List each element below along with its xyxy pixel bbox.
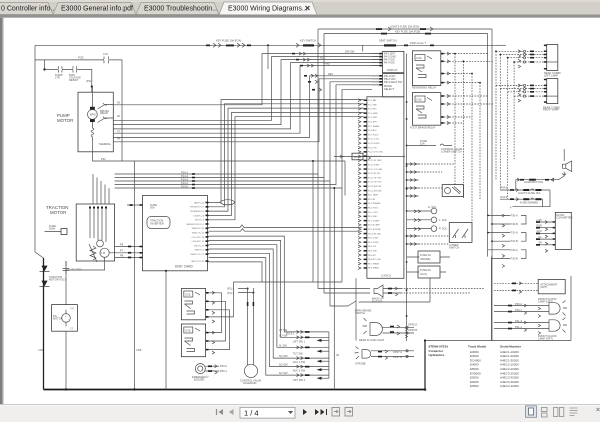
svg-text:10A: 10A — [420, 141, 425, 145]
wires to front flood lamp 1 — [494, 306, 549, 312]
wire stubs into display — [372, 54, 379, 66]
connector pins on traction leads — [128, 246, 131, 248]
left window edge — [0, 18, 3, 405]
wire: fuse loop return — [513, 190, 551, 207]
wire: top key line — [35, 44, 497, 46]
svg-text:(+): (+) — [71, 306, 74, 310]
svg-text:ILL: ILL — [538, 235, 542, 239]
nav: prev page button — [229, 409, 234, 415]
capacitor on motor negative lead — [63, 261, 70, 274]
svg-text:(SPARE): (SPARE) — [420, 257, 430, 261]
wires to rear combi right lamp — [496, 85, 544, 96]
svg-text:PD-6 GND: PD-6 GND — [368, 216, 378, 218]
svg-text:PC-19 TILT SW: PC-19 TILT SW — [368, 177, 381, 179]
svg-text:PE-2 HORN: PE-2 HORN — [368, 242, 379, 244]
svg-text:OP36 B: OP36 B — [408, 328, 417, 332]
connector symbols on DIR SW row — [292, 53, 295, 55]
disp card right pins — [206, 202, 209, 262]
svg-text:FOOT BRAKE RELAY: FOOT BRAKE RELAY — [410, 125, 436, 129]
wire: horn feed vertical — [563, 149, 565, 176]
front flood lamp 1 — [549, 303, 560, 314]
lower switch box — [449, 223, 472, 243]
svg-text:SP: SP — [539, 241, 543, 245]
tab 1: 0 Controller info — [0, 3, 53, 15]
contactor K4 right pins — [206, 332, 209, 351]
svg-text:PC-4 SEAT: PC-4 SEAT — [368, 112, 378, 115]
svg-text:LOWERSWITCH: LOWERSWITCH — [449, 243, 459, 250]
svg-text:OP37 B: OP37 B — [393, 355, 402, 359]
svg-text:SQ SW: SQ SW — [279, 354, 288, 358]
svg-text:P7: P7 — [120, 249, 124, 253]
switch row SQ SW / AUX 1 SW — [297, 357, 304, 360]
traction inverter / disp card box U1 — [143, 196, 208, 271]
svg-text:PE-7 SPARE: PE-7 SPARE — [368, 262, 380, 265]
motor 1M: traction armature — [100, 248, 109, 257]
svg-text:TRACTIONINVERTER: TRACTIONINVERTER — [150, 219, 164, 226]
attachment option box — [538, 279, 565, 293]
svg-text:LIFT SW 2: LIFT SW 2 — [293, 378, 306, 382]
wires to resistor boxes — [407, 257, 450, 272]
hydraulic switch rows collector vertical — [328, 332, 330, 378]
svg-text:SELECT: SELECT — [384, 87, 395, 91]
svg-text:CONVERTER: CONVERTER — [556, 215, 572, 219]
wire: long N05 return — [133, 161, 135, 390]
dashed vertical feeders right of relays — [455, 54, 480, 223]
wire: traction negative to battery — [65, 261, 67, 390]
svg-text:PC-8 ACC: PC-8 ACC — [368, 129, 377, 132]
capacitor pump LTR — [59, 66, 62, 72]
svg-text:1 / 4: 1 / 4 — [244, 408, 259, 417]
svg-text:(P)4-1: (P)4-1 — [500, 186, 508, 190]
svg-text:COIL: COIL — [185, 328, 192, 332]
svg-text:ACC: ACC — [537, 229, 543, 233]
logic card left pin rows — [364, 100, 367, 269]
front flood lamp 2 — [549, 320, 560, 331]
rear combi left lamp box — [547, 45, 558, 71]
disp card left pins — [140, 204, 143, 258]
wire: traction motor leads to inverter — [109, 247, 142, 258]
thermal switch — [98, 117, 108, 123]
svg-text:LEFT LAMP: LEFT LAMP — [544, 74, 558, 78]
svg-text:TILT SW: TILT SW — [293, 352, 304, 356]
wires from back-up buzzer — [383, 289, 401, 294]
dc/dc converter box — [555, 212, 571, 249]
svg-text:REAR FLOOD LIGHT: REAR FLOOD LIGHT — [359, 338, 385, 342]
svg-text:AUX 1 SW: AUX 1 SW — [293, 360, 306, 364]
switch row SU2 SW / LIFT SW 2 — [297, 374, 304, 377]
branch arrow LIFT SW 2 — [317, 377, 329, 379]
svg-text:CHAS-C PC-17: CHAS-C PC-17 — [190, 253, 205, 256]
seat switch on top line — [384, 44, 396, 46]
branch rows off logic bus — [407, 164, 419, 244]
diode D2 on left bus — [40, 281, 50, 286]
svg-text:SL SW: SL SW — [279, 343, 288, 347]
back-up buzzer speaker — [374, 285, 383, 297]
rear combi right lamp pins — [544, 79, 547, 103]
svg-text:PC-6 REV: PC-6 REV — [368, 122, 377, 124]
branch arrow AUX 1 SW — [317, 360, 329, 362]
connector loop rows P30 — [488, 215, 510, 258]
svg-text:PE-8 SPARE: PE-8 SPARE — [368, 267, 380, 270]
svg-text:P32: P32 — [101, 157, 106, 161]
svg-text:(-): (-) — [71, 326, 74, 330]
svg-text:P41-1: P41-1 — [515, 325, 522, 329]
svg-text:PC-5 FWD: PC-5 FWD — [368, 117, 378, 119]
switch row SU SW / LIFT SW 1 — [297, 336, 304, 339]
svg-text:PD-2 BZ: PD-2 BZ — [368, 199, 376, 201]
svg-text:0 Controller info....: 0 Controller info.... — [1, 6, 58, 13]
svg-text:LISA PC-16: LISA PC-16 — [194, 214, 205, 217]
svg-text:LOGICS: LOGICS — [381, 274, 391, 278]
svg-text:SEAT SWITCH: SEAT SWITCH — [379, 39, 397, 43]
reversing relay coil — [415, 55, 425, 61]
svg-text:AUX 2 SW: AUX 2 SW — [293, 369, 306, 373]
svg-text:Truck Model: Truck Model — [468, 345, 486, 349]
fuse body on bus — [61, 229, 67, 235]
reversing relay contacts — [416, 65, 426, 78]
key switch on top line — [303, 44, 314, 46]
svg-text:CYA: CYA — [103, 52, 108, 56]
wire bundle: disp card lower pins down to hydraulics — [209, 236, 329, 375]
svg-text:PC-2 GND: PC-2 GND — [368, 104, 378, 106]
reversing relay box K1 — [412, 51, 440, 86]
svg-text:(P)4-2: (P)4-2 — [500, 195, 508, 199]
svg-text:COIL: COIL — [416, 56, 423, 60]
svg-text:(P4L): (P4L) — [86, 79, 92, 83]
svg-text:BZ1: BZ1 — [320, 56, 325, 60]
svg-text:PD-1 LAMP: PD-1 LAMP — [368, 194, 379, 197]
wires from rear flood light — [383, 327, 415, 333]
svg-text:PC-3 KEY: PC-3 KEY — [368, 109, 377, 111]
svg-text:PD-5 L.SOL: PD-5 L.SOL — [368, 212, 378, 214]
svg-text:KEY SWITCH: KEY SWITCH — [300, 39, 316, 43]
wires to front flood lamp 2 — [494, 323, 549, 329]
wire: long run phone B — [209, 225, 363, 228]
emergency buzzer — [195, 364, 205, 374]
tab 4 active: E3000 Wiring Diagrams — [219, 2, 317, 15]
dashed feeder verticals to lamps — [496, 51, 514, 199]
svg-text:(OPT): (OPT) — [540, 285, 547, 289]
branch arrow AUX 2 SW — [317, 369, 329, 371]
wire: positive feed POS — [35, 60, 122, 161]
contactor K4 coil — [184, 327, 193, 333]
svg-text:P14-3: P14-3 — [181, 177, 188, 181]
wire bundle: disp card top pins up to display — [209, 100, 364, 220]
svg-text:P. SOL: P. SOL — [439, 227, 448, 231]
ferrite bead oval — [221, 200, 235, 205]
svg-text:N06: N06 — [39, 348, 44, 352]
gray band under tabs — [0, 15, 600, 18]
display unit box — [383, 51, 404, 72]
wire: link row1 to row2 — [515, 180, 517, 190]
wire: long run phone A — [209, 229, 363, 232]
svg-text:DIR SW: DIR SW — [345, 50, 355, 54]
node: pump motor feed junction — [91, 85, 93, 87]
foot brake relay contacts — [416, 106, 426, 118]
svg-text:PC-12 VR: PC-12 VR — [368, 147, 377, 149]
switch row SL SW / TILT SW — [297, 346, 304, 349]
wire: bottom ground line — [44, 389, 426, 391]
wire: long center verticals — [318, 174, 370, 306]
lights fuse row — [500, 189, 550, 191]
svg-text:PC-11 HORN: PC-11 HORN — [368, 143, 380, 145]
svg-text:DISPLAY: DISPLAY — [387, 68, 398, 72]
svg-text:RIGHT LAMP: RIGHT LAMP — [543, 108, 559, 112]
svg-text:1 M: 1 M — [101, 251, 105, 255]
svg-text:P14-2: P14-2 — [181, 174, 188, 178]
svg-text:SU SW: SU SW — [279, 333, 288, 337]
svg-text:COIL: COIL — [416, 97, 423, 101]
diode block box — [442, 185, 463, 197]
svg-text:A4EC4-10200: A4EC4-10200 — [500, 384, 519, 388]
dc/dc left pins — [553, 221, 556, 245]
wire: inverter P32 drop — [344, 161, 346, 196]
svg-text:+15V B PC-13: +15V B PC-13 — [191, 237, 205, 239]
svg-text:LIGHTS FUSE 15A (F2A): LIGHTS FUSE 15A (F2A) — [390, 24, 420, 28]
logic card box U2 — [367, 97, 404, 278]
contactor K4 contacts — [185, 338, 195, 352]
wire bundle: pump motor outputs sweep up to control rows — [105, 54, 379, 142]
contactor K3 right pins — [206, 292, 209, 318]
svg-text:P32-B: P32-B — [511, 256, 518, 260]
contactor K3 coil — [184, 291, 193, 297]
svg-text:ENB PC-5: ENB PC-5 — [195, 250, 205, 252]
svg-text:PE-6 ATT GND: PE-6 ATT GND — [368, 258, 381, 261]
svg-text:LAMP (OPT): LAMP (OPT) — [538, 300, 553, 304]
wire: inverter fuse feed — [127, 204, 140, 206]
svg-text:PE-4 GND: PE-4 GND — [368, 251, 378, 253]
contactor box K4 — [181, 324, 205, 357]
svg-text:PC-10 L.SOL: PC-10 L.SOL — [368, 139, 379, 141]
layout icon: single page (active) — [526, 406, 537, 418]
layout icon: facing — [554, 408, 564, 417]
svg-text:H. SOL: H. SOL — [428, 205, 437, 209]
wire: left battery bus lower — [43, 258, 45, 390]
svg-text:PD-8 R.LAMP: PD-8 R.LAMP — [368, 224, 381, 227]
svg-text:Serial Number: Serial Number — [500, 345, 522, 349]
rear combi left lamp pins — [544, 45, 547, 70]
contactor box K3 — [181, 289, 205, 320]
spare row symbols — [308, 81, 311, 83]
svg-text:PC-18 SP SW: PC-18 SP SW — [368, 173, 380, 175]
svg-text:TRACTIONMOTOR: TRACTIONMOTOR — [46, 205, 68, 215]
wires from foot brake relay — [444, 96, 494, 123]
svg-text:PHONE A PC-6: PHONE A PC-6 — [190, 210, 205, 213]
svg-text:KEY FUSE 10A (F2B): KEY FUSE 10A (F2B) — [395, 29, 420, 33]
svg-text:PC-7 BRAKE: PC-7 BRAKE — [368, 125, 380, 128]
svg-text:COIL: COIL — [185, 292, 192, 296]
solenoid circle L.SOL — [431, 217, 437, 223]
logic card internal pin labels — [368, 99, 384, 270]
nav: prev view icon — [332, 408, 340, 417]
svg-text:P40-2: P40-2 — [515, 302, 522, 306]
resistor 500V voltage — [73, 66, 76, 72]
display left pins — [379, 53, 382, 67]
key fuse symbols on top line — [206, 45, 210, 47]
wire: overhead light fuse line — [318, 29, 492, 34]
svg-text:N05: N05 — [137, 348, 142, 352]
foot brake relay right pins — [441, 95, 444, 124]
multifunction left pins — [379, 75, 382, 86]
nav: last page button — [315, 409, 325, 415]
svg-text:KPM: KPM — [90, 113, 96, 117]
svg-text:P14-4: P14-4 — [181, 181, 188, 185]
switch row SQ2 SW / AUX 2 SW — [297, 365, 304, 368]
svg-text:FUSE 5A: FUSE 5A — [420, 253, 431, 257]
reversing relay right pins — [441, 53, 444, 84]
svg-text:CT SW: CT SW — [279, 328, 288, 332]
interlock row with box — [334, 156, 405, 158]
svg-text:PC-14 VOL SW: PC-14 VOL SW — [368, 156, 381, 158]
svg-text:P30-A: P30-A — [511, 213, 518, 217]
svg-text:DISP. CARD: DISP. CARD — [175, 265, 194, 269]
connector loop links — [521, 215, 526, 258]
foot brake relay coil — [415, 96, 425, 102]
svg-text:P8: P8 — [120, 253, 124, 257]
horn speaker — [563, 161, 572, 172]
svg-text:PC-17 COIL BAT: PC-17 COIL BAT — [368, 168, 383, 171]
svg-text:9AB PC-10: 9AB PC-10 — [194, 201, 205, 204]
wires from emergency buzzer — [205, 366, 219, 371]
wire: traction field taps to card — [93, 174, 109, 204]
battery cell symbol — [62, 314, 71, 323]
contactor riser wires — [222, 282, 342, 350]
svg-text:P6: P6 — [120, 242, 124, 246]
svg-text:P31-B: P31-B — [511, 239, 518, 243]
field resistor of traction motor — [89, 244, 97, 262]
svg-text:LIGHTS FUSE 15A: LIGHTS FUSE 15A — [518, 191, 541, 195]
svg-text:+12V: +12V — [536, 218, 542, 222]
svg-text:SRL PC-3: SRL PC-3 — [195, 220, 205, 222]
svg-text:POS: POS — [78, 56, 84, 60]
svg-text:E3000 Troubleshootin...: E3000 Troubleshootin... — [144, 6, 218, 13]
wire: long right verticals — [488, 29, 492, 341]
wire: top line into lamp feeders — [497, 44, 506, 46]
svg-text:OP37 A: OP37 A — [393, 350, 402, 354]
svg-text:PD-7 F.LAMP: PD-7 F.LAMP — [368, 219, 380, 222]
branch arrow TILT SW — [317, 350, 329, 352]
svg-text:PD-10 BZ GND: PD-10 BZ GND — [368, 233, 382, 235]
node: N05 bottom junction — [133, 388, 135, 390]
svg-text:ENA L PC-14: ENA L PC-14 — [192, 232, 205, 235]
svg-text:SU SW: SU SW — [279, 371, 288, 375]
connector symbols on FWD row — [300, 65, 303, 67]
rear combi right lamp box — [547, 79, 558, 104]
table rows — [470, 350, 519, 388]
svg-text:WEAR: WEAR — [100, 111, 108, 115]
svg-text:P63-1: P63-1 — [220, 369, 227, 373]
svg-text:PC-13 COIL GND: PC-13 COIL GND — [368, 152, 384, 154]
switch row CT SW — [297, 330, 304, 333]
svg-text:GND: GND — [536, 224, 542, 228]
svg-text:THERMISTOR PC-1: THERMISTOR PC-1 — [186, 224, 205, 226]
svg-text:-: - — [65, 321, 66, 324]
svg-text:FUSE 5A: FUSE 5A — [420, 268, 431, 272]
bus junction dots — [406, 101, 408, 317]
svg-text:FWD Green T: FWD Green T — [410, 41, 427, 45]
svg-text:GND1 PC1-10: GND1 PC1-10 — [191, 261, 205, 263]
label rounded: TRACTION INVERTER — [147, 217, 170, 229]
svg-text:PC-16 PUMP: PC-16 PUMP — [368, 165, 380, 167]
svg-text:FUSE (SPARE): FUSE (SPARE) — [520, 200, 538, 204]
svg-text:FWD: FWD — [324, 62, 330, 66]
svg-text:FB1 PC-11: FB1 PC-11 — [194, 245, 205, 247]
connector symbols on BZ1 row — [296, 59, 299, 61]
svg-text:Hydraulics: Hydraulics — [429, 353, 445, 357]
node: battery bottom junction — [65, 388, 67, 390]
wire: left frame drop — [35, 45, 44, 258]
svg-text:P31-A: P31-A — [511, 231, 518, 235]
svg-text:OP36 A: OP36 A — [408, 322, 417, 326]
tab 2: E3000 General info.pdf — [53, 3, 136, 15]
svg-text:REVERSING RELAY: REVERSING RELAY — [412, 86, 437, 90]
svg-text:P14-5: P14-5 — [181, 184, 188, 188]
branch arrow LIFT SW 1 — [317, 339, 329, 341]
nav: page number box — [240, 407, 295, 418]
wire: top line drop to display — [362, 45, 364, 51]
svg-text:PC-9 H.SOL: PC-9 H.SOL — [368, 134, 379, 136]
svg-text:KEY FUSE 10A (F2A): KEY FUSE 10A (F2A) — [216, 39, 241, 43]
svg-text:PC-20 LIFT SW: PC-20 LIFT SW — [368, 182, 382, 184]
tab 3: E3000 Troubleshootin — [136, 3, 219, 15]
connector symbols on REV row — [304, 75, 307, 77]
svg-text:PB-3 SEAT SW: PB-3 SEAT SW — [384, 80, 402, 84]
wires from reversing relay — [444, 54, 494, 83]
small resistor boxes lower center — [418, 251, 440, 263]
battery box — [52, 305, 78, 332]
svg-text:P14-1: P14-1 — [181, 170, 188, 174]
svg-text:P63-2: P63-2 — [220, 364, 227, 368]
svg-text:E6500: E6500 — [470, 384, 479, 388]
svg-text:(ACC): (ACC) — [420, 272, 427, 276]
nav: next page button — [303, 409, 307, 415]
svg-text:PD-3 PBRAKE: PD-3 PBRAKE — [368, 202, 381, 205]
svg-text:PE-3 12V: PE-3 12V — [368, 246, 377, 248]
wires up from control valve — [248, 288, 254, 365]
control valve solenoid — [244, 364, 257, 377]
svg-text:PD-4 H.SOL: PD-4 H.SOL — [368, 208, 379, 210]
svg-text:PC-1 BAT: PC-1 BAT — [368, 99, 377, 102]
wire: logic right bus — [406, 54, 408, 341]
wire: pump contactor row — [45, 69, 92, 92]
traction motor box — [76, 204, 114, 261]
svg-text:THERMAL: THERMAL — [99, 142, 112, 146]
fuse 10A row — [407, 144, 452, 146]
svg-text:L. SOL: L. SOL — [439, 218, 448, 222]
wire: buzzer return loop — [359, 278, 430, 302]
svg-text:PC-15 SP LIMIT: PC-15 SP LIMIT — [368, 160, 383, 162]
wires from strobe — [371, 351, 414, 357]
node: inverter bottom tie — [165, 270, 167, 272]
fuse CYA on positive feed — [104, 57, 109, 64]
solenoid circle P.SOL — [431, 226, 437, 232]
connector chevrons at logic card left pins — [358, 99, 361, 270]
svg-text:HORN BUTTON: HORN BUTTON — [524, 180, 543, 184]
traction sensor circle — [97, 240, 104, 247]
wires into dc/dc — [536, 222, 553, 245]
svg-text:CONTROL VALVELOWER SWITCH: CONTROL VALVELOWER SWITCH — [441, 147, 463, 154]
wires to attachment box — [494, 283, 538, 290]
partial icon at right edge — [597, 408, 600, 411]
tab bar background — [0, 0, 600, 15]
spare fuse row — [500, 198, 543, 200]
tab close button — [306, 6, 310, 10]
traction motor brush stack — [90, 208, 106, 242]
nav: next view icon — [345, 408, 353, 417]
svg-text:P32-A: P32-A — [511, 248, 518, 252]
disp card right pin labels — [186, 201, 205, 263]
svg-text:LAMP (OPT): LAMP (OPT) — [538, 336, 553, 340]
